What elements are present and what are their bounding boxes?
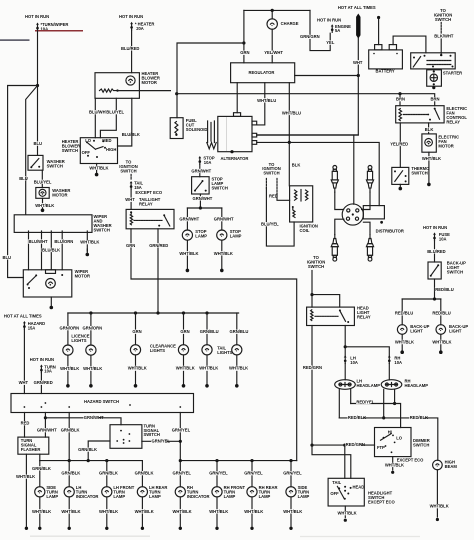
svg-text:RED/GRN: RED/GRN xyxy=(303,365,322,370)
svg-text:LAMP: LAMP xyxy=(149,494,161,499)
wire backup RH ground wire xyxy=(440,334,442,341)
junction node L-terminal net xyxy=(288,141,291,144)
wire backup LH ground wire xyxy=(401,334,403,341)
label BRN right xyxy=(430,97,437,101)
svg-text:SWITCH: SWITCH xyxy=(447,269,463,274)
dashed lead ignition to RED wire xyxy=(276,179,278,195)
wire BLU/WHT wiper switch to wiper motor xyxy=(28,231,30,270)
svg-text:GRN/RED: GRN/RED xyxy=(34,380,53,385)
wire BLU/BLK motor to blower switch xyxy=(118,98,132,146)
svg-text:BLU/BLK: BLU/BLK xyxy=(42,247,60,252)
fuse STOP 10A xyxy=(198,156,201,164)
svg-text:LAMP: LAMP xyxy=(224,494,236,499)
svg-text:WHT/BLK: WHT/BLK xyxy=(432,339,451,344)
starter solenoid xyxy=(427,70,442,86)
label WHT/BLK tail light 1 xyxy=(199,366,214,370)
ground electric fan motor xyxy=(427,161,431,186)
caption fuel cut solenoid xyxy=(186,118,208,132)
caption ignition coil xyxy=(300,223,318,233)
caption clearance lights xyxy=(150,344,176,354)
wire net to fuel cut solenoid xyxy=(177,43,244,118)
svg-text:RELAY: RELAY xyxy=(446,119,460,124)
wire side turn lamp LH ground wire xyxy=(39,497,41,526)
label BLU/YEL heater xyxy=(106,110,121,114)
caption stop lamp RH xyxy=(230,229,242,239)
label BLU wiper motor feed xyxy=(2,255,9,259)
wire plug2 to distributor xyxy=(362,192,370,209)
label BLU washer switch wire xyxy=(33,141,40,145)
ground licence light 1 xyxy=(66,371,70,387)
wire branch to relay switch side xyxy=(312,295,340,308)
wire fan motor ground wire xyxy=(428,152,430,156)
junction low beam net xyxy=(382,416,385,419)
svg-text:HAZARD SWITCH: HAZARD SWITCH xyxy=(84,399,119,404)
junction fuel-cut vertical with BRN bus xyxy=(175,92,178,95)
junction LH bus lamp3 xyxy=(105,459,108,462)
heater blower switch xyxy=(80,138,117,164)
caption taillight relay xyxy=(139,197,161,207)
junction regulator line on WHT riser xyxy=(357,74,360,77)
wire GRN/WHT to turn signal switch xyxy=(45,418,121,425)
svg-text:WHT/BLK: WHT/BLK xyxy=(173,509,192,514)
label GRN xyxy=(240,51,247,55)
label GRN/BLU tail light 2 xyxy=(229,330,244,334)
wire LH turn bus xyxy=(40,460,143,462)
wire RH turn indicator ground wire xyxy=(179,497,181,526)
svg-text:GRN: GRN xyxy=(240,50,249,55)
svg-text:SOLENOID: SOLENOID xyxy=(186,127,208,132)
ground side turn lamp RH xyxy=(289,527,292,530)
junction LH bus switch feed xyxy=(87,459,90,462)
label BLU/ORN xyxy=(54,239,69,243)
svg-text:HOT IN RUN: HOT IN RUN xyxy=(25,14,49,19)
svg-text:BATTERY: BATTERY xyxy=(376,68,395,73)
caption headlight switch pos labels xyxy=(330,480,364,496)
junction high beam net xyxy=(393,402,396,405)
label YEL/WHT xyxy=(264,51,279,55)
ground washer motor xyxy=(41,208,45,212)
svg-text:BRN: BRN xyxy=(431,97,440,102)
svg-text:BRN: BRN xyxy=(396,97,405,102)
svg-text:SWITCH: SWITCH xyxy=(212,186,228,191)
wire BLU/RED fuse to backup switch xyxy=(434,241,436,262)
scan artifact bottom border xyxy=(30,535,150,537)
lamp RH rear turn lamp xyxy=(247,487,257,497)
svg-text:FLASHER: FLASHER xyxy=(21,447,41,452)
svg-text:20A: 20A xyxy=(136,26,144,31)
label WHT/BLK LH rear turn lamp xyxy=(134,509,149,513)
label GRN/BLU tail light 1 xyxy=(199,330,214,334)
svg-text:WHT/BLK: WHT/BLK xyxy=(61,509,80,514)
wire plug1 to distributor xyxy=(335,192,344,209)
caption wiper and washer switch xyxy=(94,214,112,233)
text TO IGNITION SWITCH (taillight relay) xyxy=(119,160,137,174)
svg-text:MOTOR: MOTOR xyxy=(52,192,67,197)
wire drop to backup light RH xyxy=(440,299,442,325)
label GRN/BLK LH front turn lamp xyxy=(99,471,114,475)
RH headlamp xyxy=(381,380,402,390)
wire WHT to taillight relay xyxy=(130,189,132,209)
distributor xyxy=(342,204,384,225)
svg-text:GRN/BLU: GRN/BLU xyxy=(200,329,219,334)
svg-text:GRN/BLK: GRN/BLK xyxy=(61,428,80,433)
svg-text:WHT/BLK: WHT/BLK xyxy=(209,509,228,514)
junction tail bus feed xyxy=(156,311,159,314)
svg-text:GRN/BLK: GRN/BLK xyxy=(61,471,80,476)
label GRN/BLK hazard xyxy=(60,428,75,432)
wire drop to tail light 1 xyxy=(206,313,208,345)
svg-text:TAIL: TAIL xyxy=(332,480,341,485)
svg-text:SWITCH: SWITCH xyxy=(94,227,110,232)
label RED/BLK left xyxy=(348,415,363,419)
ground licence light 2 xyxy=(89,371,93,387)
ground tail light 2 xyxy=(235,371,239,387)
svg-text:LIGHT: LIGHT xyxy=(410,328,423,333)
ignition coil xyxy=(290,186,313,222)
wire GRN/YEL turn switch to RH riser xyxy=(142,440,180,442)
junction tail bus clearance1 xyxy=(134,311,137,314)
junction GRN/WHT tap xyxy=(44,416,47,419)
svg-text:GRN/BLK: GRN/BLK xyxy=(99,471,118,476)
svg-text:BLU/BLK: BLU/BLK xyxy=(122,132,140,137)
svg-text:SWITCH: SWITCH xyxy=(144,432,160,437)
lamp tail light 1 xyxy=(202,345,212,355)
label WHT/BLK backup RH xyxy=(432,340,447,344)
svg-text:FTP: FTP xyxy=(377,445,385,450)
svg-text:BLK: BLK xyxy=(292,162,301,167)
ground RH front turn lamp xyxy=(215,527,218,530)
fuse HAZARD 15A xyxy=(23,321,26,329)
svg-text:HIGH: HIGH xyxy=(106,147,116,152)
svg-text:WHT/BLK: WHT/BLK xyxy=(80,240,99,245)
ground clearance light 1 xyxy=(134,371,138,387)
svg-text:INDICATOR: INDICATOR xyxy=(76,494,99,499)
ground back-up light LH xyxy=(400,345,404,354)
svg-text:BLU/ORN: BLU/ORN xyxy=(54,239,73,244)
svg-text:GRN: GRN xyxy=(132,329,141,334)
caption back-up light switch xyxy=(447,261,466,275)
label GRN/WHT lamp2 xyxy=(213,217,228,221)
svg-text:MOTOR: MOTOR xyxy=(438,144,453,149)
svg-text:INDICATOR: INDICATOR xyxy=(187,494,210,499)
svg-text:BLU/WHT: BLU/WHT xyxy=(29,239,49,244)
svg-text:WHT: WHT xyxy=(125,197,135,202)
caption stop lamp LH xyxy=(195,229,207,239)
caption electric fan motor xyxy=(438,135,459,149)
label RED/YEL xyxy=(356,400,371,404)
wire WHT/BLU regulator N to alternator xyxy=(257,83,265,125)
wire tail light 1 ground wire xyxy=(206,355,208,367)
caption dimmer switch xyxy=(413,438,430,448)
svg-text:10A: 10A xyxy=(44,369,52,374)
label RED/BLU LH xyxy=(395,311,410,315)
ground heater blower switch xyxy=(95,170,99,176)
wire wiper switch to wiper motor (3rd) xyxy=(50,231,52,270)
wire LH headlamp low beam lead xyxy=(338,389,340,418)
svg-text:LAMP: LAMP xyxy=(46,494,58,499)
lamp RH front turn lamp xyxy=(212,487,222,497)
wire RH turn bus xyxy=(180,460,296,462)
ground turn signal flasher xyxy=(25,527,28,530)
svg-text:WHT/BLK: WHT/BLK xyxy=(99,509,118,514)
label WHT/BLK headlight switch xyxy=(337,511,352,515)
wire GRN/WHT stop switch output xyxy=(199,194,201,208)
caption RH rear turn lamp xyxy=(259,485,278,499)
svg-text:HOT IN RUN: HOT IN RUN xyxy=(317,17,341,22)
wiper motor xyxy=(23,270,72,297)
wire RED/GRN to dimmer FTP xyxy=(312,444,375,446)
svg-text:RED/BLK: RED/BLK xyxy=(348,415,366,420)
svg-text:GRN/WHT: GRN/WHT xyxy=(193,196,213,201)
caption wiper motor xyxy=(75,269,90,279)
label WHT/BLK side turn lamp LH xyxy=(32,509,47,513)
label GRN/ORN licence light 1 xyxy=(59,326,74,330)
svg-text:SWITCH: SWITCH xyxy=(308,264,324,269)
junction headlight relay feed split xyxy=(310,293,313,296)
caption LH headlamp xyxy=(357,378,381,388)
svg-text:WHT: WHT xyxy=(353,60,363,65)
label RED/BLU RH xyxy=(432,311,447,315)
ground tail light 1 xyxy=(205,371,209,387)
lamp high beam indicator xyxy=(433,460,443,470)
junction tail bus tail1 xyxy=(205,311,208,314)
wire LH rear turn lamp ground wire xyxy=(141,497,143,526)
wire GRN/GRN engine-fuse riser xyxy=(310,10,330,50)
svg-text:SWITCH: SWITCH xyxy=(435,17,451,22)
svg-text:SWITCH: SWITCH xyxy=(263,171,279,176)
wire WHT/BLK flasher ground run xyxy=(25,454,27,526)
washer motor xyxy=(36,188,49,199)
label RED/BLU top xyxy=(435,287,450,291)
battery xyxy=(369,45,403,69)
svg-text:LAMP: LAMP xyxy=(259,494,271,499)
wire drop to clearance light 1 xyxy=(135,313,137,345)
caption tail lights xyxy=(217,345,232,355)
label YEL xyxy=(326,40,333,44)
ground LH turn indicator xyxy=(68,527,71,530)
text TO IGNITION SWITCH (headlight relay) xyxy=(307,255,325,269)
junction BRN bus left relay drop xyxy=(398,92,401,95)
svg-text:STARTER: STARTER xyxy=(443,71,462,76)
label WHT hazard xyxy=(18,381,25,385)
wire distributor HT feed xyxy=(353,135,355,204)
heater blower motor xyxy=(95,73,139,99)
caption RH turn indicator xyxy=(187,485,210,499)
svg-text:SWITCH: SWITCH xyxy=(413,442,429,447)
svg-text:BLU/YEL: BLU/YEL xyxy=(261,222,279,227)
svg-text:SWITCH: SWITCH xyxy=(120,168,136,173)
caption washer switch xyxy=(47,159,65,169)
svg-text:HOT IN RUN: HOT IN RUN xyxy=(30,357,54,362)
svg-text:LO: LO xyxy=(85,138,92,143)
caption licence lights xyxy=(71,334,89,344)
svg-text:RED/BLU: RED/BLU xyxy=(395,311,413,316)
wire RED/YEL high beam net to dimmer xyxy=(351,404,401,428)
svg-text:WHT/BLK: WHT/BLK xyxy=(128,365,147,370)
hazard switch xyxy=(11,394,194,413)
wire GRN/YEL hazard to RH bus xyxy=(179,413,181,461)
text TO IGNITION SWITCH (starter) xyxy=(434,8,452,22)
caption washer motor xyxy=(52,188,70,198)
caption back-up light LH xyxy=(410,324,429,334)
thermo switch xyxy=(392,167,409,184)
wire GRN taillight relay output xyxy=(131,229,297,461)
svg-text:WHT/BLK: WHT/BLK xyxy=(83,366,102,371)
wire BLK fan relay to fan motor xyxy=(428,123,430,134)
wire RED/BLK low beam net to high beam indicator xyxy=(339,418,438,460)
svg-text:MOTOR: MOTOR xyxy=(75,273,90,278)
headlight switch xyxy=(328,478,364,506)
alternator xyxy=(207,113,257,152)
wire RED/BLU backup switch output xyxy=(434,279,436,299)
label GRN/BLK switch xyxy=(78,447,93,451)
label GRN/YEL side turn lamp RH xyxy=(283,471,298,475)
svg-text:RED: RED xyxy=(269,193,278,198)
label GRN/GRN xyxy=(300,35,315,39)
svg-text:WHT/BLK: WHT/BLK xyxy=(430,504,449,509)
svg-text:ALTERNATOR: ALTERNATOR xyxy=(221,156,249,161)
wiper and washer switch xyxy=(14,215,92,233)
ground back-up light RH xyxy=(439,345,443,354)
svg-text:RELAY: RELAY xyxy=(357,315,371,320)
svg-text:15A: 15A xyxy=(28,325,36,330)
ground clearance light 2 xyxy=(182,371,186,387)
svg-text:REGULATOR: REGULATOR xyxy=(249,70,275,75)
terminal starter solenoid ground xyxy=(432,86,435,89)
svg-text:WHT/BLK: WHT/BLK xyxy=(422,156,441,161)
fuse TURN 10A xyxy=(40,365,43,373)
fuse LH 10A xyxy=(344,355,347,363)
wire drop to backup light LH xyxy=(401,299,403,325)
label BLK fan xyxy=(424,128,431,132)
spark plug 2 (top right) xyxy=(366,166,373,193)
wire plug4 to distributor xyxy=(363,222,370,234)
wire BLU/YEL motor to blower switch xyxy=(100,98,116,137)
caption thermo switch xyxy=(411,166,430,176)
dimmer switch xyxy=(375,428,412,457)
svg-text:WHT/BLK: WHT/BLK xyxy=(35,203,54,208)
wire BLU/YEL washer switch to washer motor xyxy=(41,170,43,187)
lamp LH front turn lamp xyxy=(102,487,112,497)
svg-text:10A: 10A xyxy=(439,237,447,242)
label GRN/YEL hazard xyxy=(171,428,186,432)
back-up light switch xyxy=(428,262,441,279)
svg-text:GRN/RED: GRN/RED xyxy=(149,243,168,248)
fuse TAIL 15A xyxy=(130,181,133,189)
svg-text:GRN/ORN: GRN/ORN xyxy=(60,326,80,331)
svg-text:WHT: WHT xyxy=(19,380,29,385)
svg-text:YEL: YEL xyxy=(326,40,335,45)
wire BLK/WHT to starter xyxy=(440,39,442,55)
ground RH rear turn lamp xyxy=(250,527,253,530)
spark plug 1 (top left) xyxy=(331,166,338,193)
ground stop lamp 1 xyxy=(186,256,190,272)
svg-text:HOT IN RUN: HOT IN RUN xyxy=(423,225,447,230)
wire BLU/RED heater fuse to blower motor xyxy=(131,30,133,73)
junction RH bus feed xyxy=(179,459,182,462)
label WHT/BLK stop1 xyxy=(179,251,194,255)
svg-text:LAMP: LAMP xyxy=(195,233,207,238)
fuse BACKUP 10A xyxy=(433,232,436,240)
junction headlight switch feed xyxy=(343,444,346,447)
wire high beam indicator ground wire xyxy=(436,470,438,517)
label WHT/BLK LH turn indicator xyxy=(61,509,76,513)
dashed lead ignition to BLU/YEL wire xyxy=(265,179,267,189)
svg-text:BLU/RED: BLU/RED xyxy=(427,249,445,254)
caption heater blower switch pos labels xyxy=(82,138,117,155)
wire BLU main from turn/wiper fuse down to washer switch xyxy=(37,31,39,156)
caption headlight switch xyxy=(368,491,395,505)
voltage regulator U1 xyxy=(231,63,295,83)
wire YEL/RED fan relay to thermo switch xyxy=(399,123,401,167)
lamp back-up light RH xyxy=(436,325,446,335)
wire RED to coil xyxy=(277,194,290,200)
lamp stop lamp LH xyxy=(182,230,192,240)
ground side turn lamp LH xyxy=(38,527,41,530)
label BLU/WHT heater xyxy=(89,110,104,114)
wire WHT/BLU regulator L down xyxy=(288,83,290,143)
lamp back-up light LH xyxy=(397,325,407,335)
svg-text:EXCEPT ECO: EXCEPT ECO xyxy=(368,500,395,505)
ground headlight switch xyxy=(344,519,347,522)
wire regulator F to alternator top tab xyxy=(236,83,238,113)
label WHT/BLK licence light 1 xyxy=(60,366,75,370)
svg-text:YEL/RED: YEL/RED xyxy=(390,141,408,146)
svg-text:WHT/BLK: WHT/BLK xyxy=(176,365,195,370)
wire RH front turn lamp ground wire xyxy=(216,497,218,526)
label GRN clearance light 2 xyxy=(180,330,187,334)
wire LH front turn lamp ground wire xyxy=(106,497,108,526)
wire headlight switch ground wire xyxy=(344,506,346,518)
svg-text:WHT/BLK: WHT/BLK xyxy=(179,251,198,256)
stop lamp switch xyxy=(192,177,210,194)
fuse ENGINE 5A xyxy=(331,24,334,32)
svg-text:GRN: GRN xyxy=(126,243,135,248)
svg-text:HOT AT ALL TIMES: HOT AT ALL TIMES xyxy=(4,313,42,318)
caption back-up light RH xyxy=(449,324,468,334)
wire BLK alternator L-net to ignition coil xyxy=(288,142,290,185)
lamp side turn lamp LH xyxy=(35,487,45,497)
label GRN/WHT lamp1 xyxy=(179,217,194,221)
junction RH bus lamp8 xyxy=(289,459,292,462)
label RED/GRN FTP xyxy=(345,443,360,447)
svg-text:GRN/BLK: GRN/BLK xyxy=(135,471,154,476)
wire drop to LH turn indicator xyxy=(68,461,70,487)
svg-text:HEADLAMP: HEADLAMP xyxy=(357,383,381,388)
svg-text:RED/BLK: RED/BLK xyxy=(410,415,428,420)
caption LH turn indicator xyxy=(76,485,99,499)
wire GRN/RED taillight relay to tail bus xyxy=(157,229,159,313)
svg-text:WHT/BLK: WHT/BLK xyxy=(60,366,79,371)
svg-text:GRN/YEL: GRN/YEL xyxy=(173,471,192,476)
electric fan motor xyxy=(422,134,436,152)
caption heater blower motor xyxy=(142,71,160,85)
svg-text:GRN/WHT: GRN/WHT xyxy=(37,428,57,433)
caption side turn lamp RH xyxy=(298,485,310,499)
svg-text:MED: MED xyxy=(102,138,111,143)
lamp licence light 2 xyxy=(86,345,96,355)
wire drop to licence light 2 xyxy=(90,313,92,345)
junction RH bus lamp6 xyxy=(215,459,218,462)
wire drop to tail light 2 xyxy=(236,313,238,345)
wire GRN/WHT stop fuse to switch xyxy=(199,164,201,177)
svg-text:5A: 5A xyxy=(335,28,340,33)
svg-text:WHT/BLK: WHT/BLK xyxy=(244,509,263,514)
label WHT/BLK stop2 xyxy=(213,251,228,255)
label WHT/BLK dimmer xyxy=(385,463,400,467)
wire washer motor to ground xyxy=(42,198,44,203)
svg-text:WHT/BLK: WHT/BLK xyxy=(229,365,248,370)
